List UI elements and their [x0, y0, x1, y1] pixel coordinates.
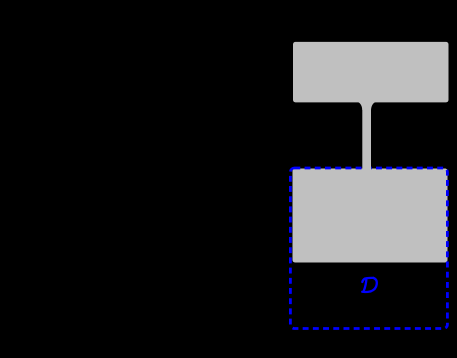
lower block (inside dataset container) — [293, 169, 448, 263]
top block — [293, 42, 449, 103]
wire (top block to lower block) — [362, 100, 371, 172]
label D (script/mathcal D) — [362, 278, 377, 292]
wire fillet at top block — [356, 102, 377, 111]
dataset container D (blue dashed rounded box) — [290, 168, 447, 329]
